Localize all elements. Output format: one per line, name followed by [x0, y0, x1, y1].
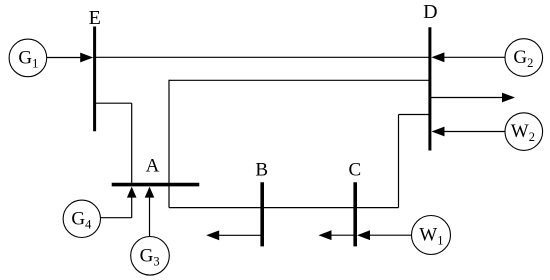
wire G4 to bus A [101, 187, 137, 218]
wire W1 to bus C [357, 230, 411, 240]
generator G4 [63, 200, 100, 237]
bus B [260, 182, 264, 246]
load arrow at bus D [431, 93, 516, 103]
wire A to D (stub into bus D) [399, 114, 429, 116]
wire A to D (bottom side through buses B and C) [169, 207, 399, 209]
wire G2 to bus D [431, 52, 505, 62]
wire E to A (stub from bus E) [96, 102, 132, 104]
wire E to D (top transmission line) [96, 56, 429, 58]
wire W2 to bus D [432, 127, 506, 137]
load arrow at bus B [206, 230, 262, 240]
svg-text:A: A [146, 156, 160, 177]
bus D [428, 27, 431, 150]
wire G3 to bus A [145, 187, 155, 237]
wire G1 to bus E [47, 53, 93, 63]
load arrow at bus C [319, 230, 356, 240]
bus C [353, 182, 357, 246]
svg-text:D: D [423, 1, 437, 23]
svg-text:B: B [255, 160, 268, 181]
wire A to D (line A-D: top side) [169, 79, 429, 81]
bus A [112, 183, 200, 187]
svg-text:C: C [348, 160, 361, 181]
wind generator W1 [412, 216, 451, 255]
generator G1 [9, 39, 47, 77]
wire E to A (vertical into bus A) [131, 103, 133, 183]
generator G2 [505, 39, 543, 77]
wind generator W2 [505, 113, 543, 151]
generator G3 [131, 237, 170, 276]
bus E [93, 27, 96, 132]
wire A to D (left vertical through bus A) [168, 80, 170, 208]
svg-text:E: E [89, 7, 101, 29]
wire A to D (right vertical) [398, 115, 400, 208]
